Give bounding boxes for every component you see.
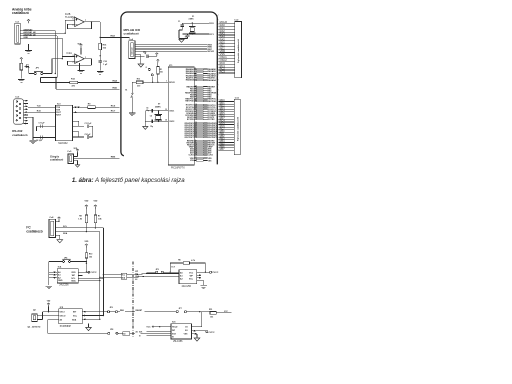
svg-text:C8 1µF: C8 1µF [36, 140, 43, 142]
power VDD R1 [157, 59, 160, 62]
svg-text:19: 19 [195, 112, 197, 114]
wire RA4 right [78, 82, 120, 84]
svg-text:RA4: RA4 [113, 80, 118, 83]
wire ICD bus RB7 [135, 48, 207, 50]
svg-text:csatlakozó: csatlakozó [26, 229, 42, 233]
pin row RD7/PSP7 pin 26 with series resistor [194, 136, 196, 138]
Cs6 pin stub RD4 [219, 111, 235, 113]
Cs3 pin stub 1 [24, 100, 29, 102]
ground IC4 [46, 286, 53, 289]
wire C16 [135, 55, 144, 57]
pin row RC3/SCK pin 18 with series resistor [194, 110, 196, 112]
svg-text:R8: R8 [79, 216, 81, 218]
wire A0 long [48, 332, 108, 334]
svg-text:RC1: RC1 [209, 34, 214, 36]
pin row RC4/SDI pin 19 with series resistor [194, 112, 196, 114]
connector Cs3 DB9 [14, 99, 24, 124]
pin row RE0/RD pin 8 with series resistor [194, 140, 196, 142]
wire to RA3 node [99, 22, 101, 38]
svg-text:TxD: TxD [37, 105, 41, 107]
wire VDD pin8 [80, 47, 82, 54]
wire IC5 gnd [88, 324, 90, 327]
svg-text:A0: A0 [123, 332, 125, 335]
wire R13 to MCLR [143, 81, 168, 83]
svg-text:7: 7 [195, 79, 196, 81]
resistor R13 [136, 81, 143, 84]
wire xtal gnd rail [144, 111, 146, 126]
bus label box left [121, 273, 127, 279]
Cs2 pin stub MCLR [219, 22, 235, 24]
svg-text:CLKO: CLKO [188, 155, 194, 157]
wire RA4 left [41, 82, 70, 84]
svg-text:csatlakozó: csatlakozó [12, 11, 29, 15]
wire IC2B output [84, 21, 100, 23]
svg-text:24LC256: 24LC256 [182, 286, 192, 288]
Cs6 pin stub RB7 [219, 149, 235, 151]
svg-text:IC2A: IC2A [67, 52, 73, 55]
Cs3 pin stub 8 [24, 120, 29, 122]
wire IC6 CS [192, 326, 202, 328]
svg-text:TLC2262: TLC2262 [65, 16, 76, 19]
pin row RA0/AN0 pin 2 with series resistor [194, 68, 196, 70]
Cs6 pin stub RD7 [219, 118, 235, 120]
ground IC5 [86, 328, 92, 331]
stub IC7 b [197, 277, 201, 279]
ground under IC2A [78, 71, 85, 74]
wire C1+ [72, 120, 78, 122]
svg-text:MAX232: MAX232 [58, 142, 68, 145]
svg-text:RB7/PGD: RB7/PGD [185, 101, 194, 103]
svg-text:csatlakozó: csatlakozó [50, 158, 64, 162]
svg-text:6: 6 [73, 25, 74, 27]
svg-text:8: 8 [195, 140, 196, 142]
wire VCC to IC6 [153, 326, 171, 328]
capacitor C9 [87, 135, 88, 139]
resistor R8 [85, 215, 88, 223]
svg-text:39: 39 [195, 98, 197, 100]
Cs2 pin stub RA3 [219, 34, 235, 36]
pin row RB0/INT pin 33 with series resistor [194, 86, 196, 88]
wire to JP5 [147, 271, 156, 273]
wire IC5 SDA [82, 318, 100, 320]
svg-text:RA3: RA3 [111, 35, 116, 38]
Cs2 pin stub RA4 [219, 37, 235, 39]
Cs6 pin stub RB2 [219, 136, 235, 138]
svg-text:SCK: SCK [172, 333, 177, 335]
wire R8 to SDA [85, 223, 87, 232]
capacitor C4 [151, 120, 152, 124]
svg-text:MCLR: MCLR [208, 51, 215, 53]
svg-text:SCL: SCL [122, 275, 125, 277]
svg-text:1: 1 [166, 81, 167, 83]
capacitor C16 [147, 54, 148, 58]
svg-text:R11: R11 [209, 309, 212, 311]
svg-text:10: 10 [195, 144, 197, 146]
wire SDA [55, 231, 99, 233]
pin row RC0/T1O pin 15 with series resistor [194, 104, 196, 106]
svg-text:19: 19 [195, 122, 197, 124]
svg-text:1. ábra: A fejlesztő panel kap: 1. ábra: A fejlesztő panel kapcsolási ra… [72, 177, 185, 184]
wire IC6 SO [192, 330, 206, 332]
pin row RC1/T1S pin 16 with series resistor [194, 106, 196, 108]
wire IC2A feedback [91, 59, 93, 65]
wire P1 to ground [20, 70, 22, 79]
svg-text:35: 35 [195, 90, 197, 92]
Cs2 pin stub RE0 [219, 43, 235, 45]
wire IC7 gnd [203, 280, 205, 285]
wire IC2B feedback [91, 22, 93, 29]
svg-text:RC7: RC7 [111, 110, 116, 112]
stub WP [78, 275, 82, 277]
pin row RB6/PGC pin 39 with series resistor [194, 98, 196, 100]
ground left [129, 113, 136, 116]
IC U7 24LC256 box [179, 270, 197, 284]
stub IC6 [192, 333, 198, 335]
stub IC7 [197, 274, 201, 276]
wire R11 right [216, 312, 231, 314]
Cs3 pin stub 5 [24, 111, 29, 113]
module boundary rounded box [121, 12, 217, 164]
Cs3 pin stub 9 [24, 123, 29, 125]
connector Cs5 outer [68, 154, 73, 163]
Cs2 pin stub RC2 [219, 69, 235, 71]
wire IC2A output [84, 58, 91, 60]
svg-text:VCC: VCC [146, 327, 151, 329]
pin row RA5/AN4 pin 7 with series resistor [194, 79, 196, 81]
wire riser AN1 [64, 20, 66, 33]
svg-text:VCC: VCC [189, 272, 194, 274]
wire riser to INT2 [47, 320, 49, 334]
wire to IC2A - [68, 60, 75, 62]
crystal XT [156, 116, 161, 120]
op-amp IC2A [75, 54, 85, 63]
svg-text:RA5/AN4: RA5/AN4 [186, 79, 195, 82]
svg-text:A0: A0 [136, 331, 138, 334]
wire OSC1 [148, 110, 168, 112]
svg-text:csatlakozó: csatlakozó [12, 133, 28, 137]
svg-text:S1: S1 [125, 90, 127, 92]
IC U1 PIC16F877 box [168, 67, 194, 165]
svg-text:C9 1µF: C9 1µF [85, 134, 92, 136]
pin row RC6/TX pin 21 with series resistor [194, 116, 196, 118]
potentiometer P1 [20, 63, 23, 70]
wire SCL [55, 227, 103, 229]
pin row CLKO pin 15 with series resistor [194, 154, 196, 156]
Cs3 DB9 pin holes [16, 101, 18, 103]
wire ICD bus MCLR [135, 50, 207, 52]
wire R6 right [190, 262, 206, 264]
resistor R9 [88, 106, 96, 109]
svg-text:10k: 10k [160, 72, 163, 74]
svg-text:RC3: RC3 [220, 70, 226, 74]
Cs6 pin stub RD6 [219, 116, 235, 118]
svg-text:5: 5 [195, 74, 196, 76]
Cs6 pin stub RB5 [219, 144, 235, 146]
wire DB9 shield to gnd [32, 117, 34, 140]
resistor R6 [183, 262, 189, 265]
crystal X1 [190, 28, 194, 32]
svg-text:C7 1µF: C7 1µF [39, 122, 46, 124]
IC4 pin A0 stub [49, 271, 57, 273]
wire Cs4 gnd stub [135, 54, 141, 56]
svg-text:SDA: SDA [71, 280, 76, 283]
Cs6 pin stub RC5 [219, 124, 235, 126]
wire to ground [131, 98, 133, 113]
wire JP2 to MCLR [152, 76, 154, 82]
pin row RD3/PSP3 pin 22 with series resistor [194, 128, 196, 130]
wire IC5 A0 [48, 319, 59, 321]
wire IC7 VCC [197, 271, 210, 273]
svg-text:RA5: RA5 [113, 86, 118, 89]
wire riser AN2 [56, 36, 58, 78]
wire ICD bus RB3 [135, 44, 207, 46]
pin row RB1 pin 34 with series resistor [194, 88, 196, 90]
svg-text:3: 3 [195, 70, 196, 72]
pin row RA1/AN1 pin 3 with series resistor [194, 70, 196, 72]
Cs6 pin stub RB0 [219, 131, 235, 133]
svg-text:Fejlesztői csatlakozó B: Fejlesztői csatlakozó B [236, 117, 239, 141]
pin row RB4 pin 37 with series resistor [194, 94, 196, 96]
svg-text:OSCO: OSCO [60, 316, 66, 318]
pin row RC7/RX pin 22 with series resistor [194, 118, 196, 120]
Cs6 pin stub RC4 [219, 121, 235, 123]
svg-text:22: 22 [195, 118, 197, 120]
svg-text:GND: GND [58, 280, 63, 282]
wire IC4 left rail [48, 268, 50, 285]
wire RC0/T1OSO [182, 22, 209, 24]
svg-text:GND: GND [23, 37, 28, 39]
svg-text:25LC256: 25LC256 [173, 341, 183, 343]
capacitor C8 [41, 136, 42, 140]
resistor R1 [157, 67, 160, 75]
Cs2 pin stub OSC2 [219, 60, 235, 62]
svg-text:38: 38 [195, 96, 197, 98]
ground Cs5 [75, 165, 79, 167]
wire R10 to CVCC [85, 258, 87, 272]
wire TxD [28, 106, 55, 108]
power VDD RTC [47, 303, 50, 306]
Cs3 pin stub 4 [24, 108, 29, 110]
svg-text:RA5/AN4: RA5/AN4 [208, 79, 217, 82]
wire AN0 [20, 30, 55, 32]
wire JP5 to IC7 [163, 271, 179, 273]
IC U5 PCF8583 box [59, 309, 83, 324]
Cs3 pin stub 6 [24, 114, 29, 116]
resistor R10 [85, 253, 88, 258]
svg-text:RB7: RB7 [220, 148, 225, 151]
wire SDA bus vertical [99, 232, 101, 320]
svg-text:33: 33 [195, 85, 197, 87]
svg-text:26: 26 [195, 136, 197, 138]
svg-text:csatlakozó: csatlakozó [124, 32, 140, 36]
wire SDA to stack [100, 276, 121, 278]
svg-text:17: 17 [195, 108, 197, 110]
svg-text:R6: R6 [178, 259, 180, 261]
wire riser RA5 [55, 78, 57, 90]
Cs6 pin stub RB1 [219, 134, 235, 136]
svg-text:-5: -5 [145, 67, 147, 69]
svg-text:RD7/PSP7: RD7/PSP7 [208, 137, 217, 139]
svg-text:R13: R13 [137, 78, 140, 80]
Cs2 pin stub RE1 [219, 46, 235, 48]
svg-text:PIC16F877X: PIC16F877X [171, 166, 185, 169]
wire IC5 SCL [82, 315, 103, 317]
Cs6 pin stub RB4 [219, 141, 235, 143]
svg-text:OSC2: OSC2 [169, 121, 174, 123]
Cs6 pin stub RD1 [219, 103, 235, 105]
svg-text:MCLR: MCLR [169, 82, 175, 84]
pin row RD2/PSP2 pin 21 with series resistor [194, 126, 196, 128]
wire RA3 [100, 37, 129, 39]
wire IC6 gnd [196, 334, 198, 338]
ground under C10 [97, 72, 104, 75]
pin row RD4/PSP4 pin 23 with series resistor [194, 130, 196, 132]
svg-text:VDD: VDD [71, 272, 76, 274]
pin row RB3/PGM pin 36 with series resistor [194, 92, 196, 94]
svg-text:RB0/INT: RB0/INT [136, 310, 144, 312]
Cs2 pin stub RC0 [219, 63, 235, 65]
pin row RB7/PGD pin 40 with series resistor [194, 100, 196, 102]
pin row AN5 pin 12 with series resistor [194, 148, 196, 150]
bus label box A0 [123, 332, 130, 335]
Cs2 pin stub RA0 [219, 25, 235, 27]
svg-text:C1: C1 [178, 21, 180, 23]
svg-text:11: 11 [195, 146, 197, 148]
IC U4 24LC256 box [57, 269, 78, 283]
svg-text:RC6: RC6 [111, 105, 116, 107]
wire SCL to stack [103, 274, 121, 276]
pin row RC5/SDO pin 20 with series resistor [194, 114, 196, 116]
wire JP1 to opamp [43, 73, 52, 75]
svg-text:6: 6 [195, 77, 196, 79]
wire P1 wiper to JP1 [29, 73, 34, 75]
svg-text:37: 37 [195, 94, 197, 96]
svg-text:OSCI: OSCI [60, 312, 65, 314]
Cs6 pin stub RB6 [219, 147, 235, 149]
svg-text:JP8: JP8 [110, 329, 113, 331]
connector Cs1 outer [15, 23, 20, 44]
svg-text:21: 21 [195, 126, 197, 128]
svg-text:C11 1µF: C11 1µF [85, 123, 93, 125]
svg-text:22: 22 [195, 128, 197, 130]
wire SCL bus vertical [102, 228, 104, 316]
crystal Q2 [32, 314, 37, 322]
terminal CVCC IC6 [206, 331, 208, 333]
ground under P1 [18, 80, 25, 83]
ground IC6 [194, 338, 200, 341]
power VDD C16 [155, 53, 158, 56]
wire R1 bottom [157, 74, 159, 82]
svg-text:CLKO: CLKO [208, 155, 214, 157]
svg-text:RD7/PSP7: RD7/PSP7 [185, 137, 194, 139]
pin row RA3/AN3 pin 5 with series resistor [194, 75, 196, 77]
power VDD Cs8 [58, 217, 61, 220]
wire IC2A gnd pin [79, 63, 81, 70]
power VDD Cs5 [76, 149, 79, 152]
wire RC7 [72, 111, 119, 113]
ground Cs4 [138, 64, 144, 67]
svg-text:11: 11 [195, 157, 197, 159]
wire riser AN0 [54, 31, 56, 74]
power VDD above P1 [20, 58, 23, 61]
jumper JP1 [34, 72, 36, 74]
Cs6 pin stub RD2 [219, 106, 235, 108]
Cs3 pin stub 3 [24, 105, 29, 107]
svg-text:SDA: SDA [72, 319, 77, 322]
capacitor C5 [151, 109, 152, 113]
ground XT [143, 127, 148, 130]
capacitor C10 [98, 61, 102, 62]
svg-text:25: 25 [195, 134, 197, 136]
IC4 pin A2 stub [49, 277, 57, 279]
Cs6 pin stub RC7 [219, 129, 235, 131]
wire AN3 [20, 37, 62, 39]
svg-text:PCF8583P: PCF8583P [60, 326, 72, 328]
wire IC4 SCL [78, 277, 103, 279]
ground under Cs1 [25, 51, 32, 54]
svg-text:AN1/RA1 (A): AN1/RA1 (A) [23, 31, 36, 34]
wire riser to INT wire [201, 312, 203, 327]
wire C9 [72, 136, 83, 138]
pin row VDD pin 11 with series resistor [194, 157, 196, 159]
svg-text:RC7/RX: RC7/RX [208, 119, 216, 121]
wire R6 left [170, 262, 183, 264]
power VDD R7 [94, 205, 97, 209]
resistor R16 [99, 43, 102, 50]
ground IC7 [200, 286, 207, 289]
wire ICD bus RB6 [135, 46, 207, 48]
svg-text:12: 12 [195, 159, 197, 161]
wire Cs4 gnd [140, 55, 142, 64]
svg-text:9: 9 [195, 142, 196, 144]
wire RA5 [56, 88, 120, 90]
connector Cs5 inner [70, 156, 72, 162]
bus boundary dash-dot line [132, 262, 134, 338]
pin row VSS pin 12 with series resistor [194, 160, 196, 162]
power VDD R8 [85, 205, 88, 209]
svg-text:JP4: JP4 [64, 256, 67, 259]
wire C2+ [72, 131, 78, 133]
power VDD R10 [85, 244, 88, 248]
IC U6 25LC256 box [171, 324, 192, 339]
svg-text:RB6: RB6 [111, 157, 116, 159]
svg-text:470: 470 [137, 85, 140, 88]
svg-text:15: 15 [195, 104, 197, 106]
wire IC4 SDA [78, 280, 100, 282]
ground Cs8 [57, 240, 63, 243]
svg-text:RC0: RC0 [209, 23, 214, 25]
svg-text:20MHz: 20MHz [155, 106, 161, 108]
svg-text:13: 13 [195, 150, 197, 152]
svg-text:R1: R1 [160, 69, 162, 71]
svg-text:C5: C5 [146, 107, 148, 109]
wire AN2 [20, 35, 57, 37]
terminal CVCC IC7 [210, 271, 212, 273]
svg-text:15: 15 [195, 154, 197, 156]
wire to JP4 [49, 261, 63, 263]
wire to ground rail [179, 29, 182, 31]
Cs6 pin stub RD5 [219, 113, 235, 115]
svg-text:2: 2 [73, 62, 74, 64]
svg-text:2: 2 [195, 68, 196, 70]
pin row VREF pin 11 with series resistor [194, 146, 196, 148]
wire to IC2B - [68, 23, 75, 25]
connector Cs6 box [234, 99, 240, 154]
Cs2 pin stub VDD [219, 52, 235, 54]
Cs3 pin stub 2 [24, 103, 29, 105]
Q2 wiring [37, 315, 59, 317]
wire R1 left [72, 106, 87, 108]
